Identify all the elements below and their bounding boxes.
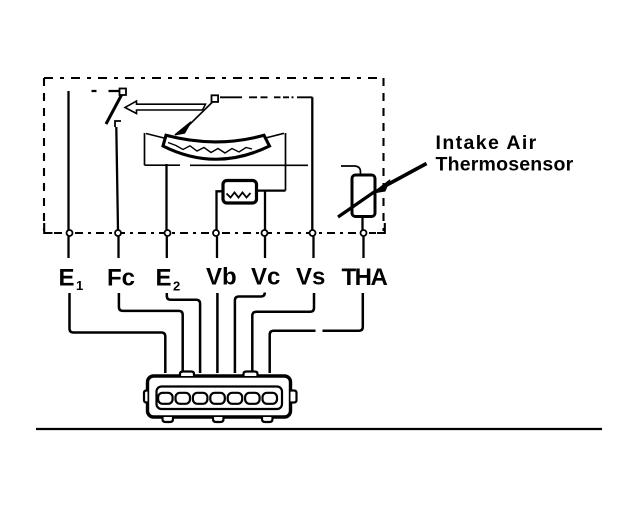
resistor R2 body (223, 181, 257, 204)
wire resistor right horizontal (257, 189, 286, 191)
label Vs (296, 264, 325, 291)
wire Vs vertical inside box (311, 97, 313, 230)
connector J1 pin 3 (193, 393, 208, 404)
stub below terminal THA (362, 237, 364, 259)
switch SW1 top terminal square (120, 89, 127, 96)
wire Vc vertical (264, 191, 266, 230)
wire left bracket vertical (track to E2 line) (144, 133, 146, 165)
connector J1 bottom foot middle (213, 417, 224, 422)
wire Vs to connector (252, 293, 314, 373)
wire track right end to right bracket (266, 133, 285, 138)
connector J1 bottom foot right (262, 417, 273, 422)
wire THA vertical (361, 217, 363, 231)
svg-text:Intake Air: Intake Air (436, 132, 538, 154)
connector J1 outer shell (148, 376, 291, 417)
connector J1 pin 5 (228, 393, 243, 404)
svg-text:2: 2 (173, 279, 180, 294)
label pointer arrowhead (373, 180, 391, 193)
wire thermistor top link (341, 166, 361, 176)
dash-dot link wiper to Vs (220, 96, 313, 98)
switch SW1 lower terminal (115, 121, 121, 127)
annotation Intake Air Thermosensor (436, 132, 574, 175)
label Fc (107, 265, 135, 292)
svg-text:Vs: Vs (296, 264, 325, 291)
wire under-track horizontal to Vs (190, 164, 308, 166)
stub below terminal E1 (67, 237, 69, 259)
terminal Vs (310, 230, 316, 236)
connector J1 right tab (291, 391, 297, 403)
label Vb (206, 264, 237, 291)
airflow meter dashed box right edge (382, 78, 384, 231)
connector J1 pin 6 (245, 393, 260, 404)
wire dashed link E1 to switch (92, 90, 120, 92)
wiper pivot square (212, 95, 219, 102)
svg-text:Thermosensor: Thermosensor (436, 154, 574, 176)
label pointer arrow shaft (384, 164, 427, 187)
connector J1 top latch left (180, 372, 194, 377)
connector J1 pin 1 (158, 393, 173, 404)
svg-text:1: 1 (76, 278, 83, 293)
stub below terminal E2 (166, 237, 168, 259)
terminal E2 (165, 230, 171, 236)
terminal E1 (67, 230, 73, 236)
thermistor TH1 body (352, 175, 375, 217)
terminal Vc (262, 230, 268, 236)
connector J1 pin 7 (263, 393, 278, 404)
svg-text:Vc: Vc (251, 264, 280, 291)
connector J1 pin 2 (176, 393, 191, 404)
stub below terminal Fc (117, 237, 119, 259)
switch SW1 blade (106, 95, 122, 124)
wire E1 to connector (70, 293, 166, 373)
wire Fc vertical inside box (116, 127, 118, 230)
connector J1 left tab (144, 391, 148, 403)
resistor R2 zigzag (227, 193, 251, 198)
wire right bracket vertical (track to resistor) (285, 133, 287, 191)
wire resistor left to Vb (217, 191, 224, 230)
thermistor strike arrow (338, 190, 377, 217)
wire Fc to connector (119, 293, 183, 373)
connector J1 top latch right (244, 372, 258, 377)
connector J1 pin 4 (210, 393, 225, 404)
svg-text:Fc: Fc (107, 265, 135, 292)
wiper arm arrowhead (175, 122, 191, 135)
terminal Fc (115, 230, 121, 236)
label Vc (251, 264, 280, 291)
wire track left end to left bracket (146, 134, 164, 139)
svg-text:THA: THA (342, 264, 388, 291)
stub below terminal Vb (216, 237, 218, 259)
connector J1 inner frame (157, 387, 283, 410)
airflow meter dashed box left edge (43, 78, 45, 231)
wire E2 vertical (165, 164, 167, 230)
terminal THA (361, 230, 367, 236)
wiper arm (187, 102, 213, 127)
stub below terminal Vs (312, 237, 314, 259)
wire E2 bus horizontal (145, 164, 181, 166)
wire E2 to connector (167, 293, 200, 373)
wire THA to connector (270, 293, 363, 373)
airflow meter dashed box top edge (44, 77, 384, 79)
svg-text:E: E (156, 265, 172, 292)
label THA (342, 264, 388, 291)
bottom rule (36, 428, 602, 430)
terminal Vb (213, 230, 219, 236)
svg-text:E: E (59, 265, 75, 292)
wire E1 vertical inside box (67, 91, 69, 230)
wire Vc to connector (235, 293, 265, 374)
potentiometer track R1 (curved band) (163, 135, 270, 159)
airflow meter dashed box bottom edge (terminal bus) (44, 223, 385, 233)
stub below terminal Vc (264, 237, 266, 259)
label E2 (156, 265, 181, 294)
label E1 (59, 265, 84, 294)
wire Vb to connector (216, 293, 219, 373)
connector J1 bottom foot left (163, 417, 174, 422)
potentiometer track zigzag (168, 143, 252, 154)
vane linkage hollow arrow (125, 101, 206, 114)
svg-text:Vb: Vb (206, 264, 237, 291)
